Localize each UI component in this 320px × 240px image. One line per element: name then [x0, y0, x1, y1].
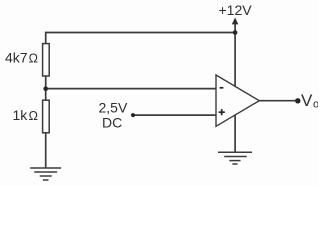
svg-text:2,5V: 2,5V: [99, 99, 128, 115]
svg-text:Ω: Ω: [29, 52, 38, 66]
node junction dot divider midpoint: [43, 86, 48, 91]
op-amp non-inverting input plus sign: [219, 109, 225, 115]
svg-text:4k7: 4k7: [5, 50, 28, 66]
wire inverting input: [46, 88, 216, 90]
svg-text:o: o: [313, 99, 318, 111]
op-amp U1: [216, 75, 259, 126]
output node dot: [295, 98, 300, 103]
svg-text:DC: DC: [102, 115, 122, 131]
power +12V arrow: [232, 18, 239, 25]
wire output: [259, 100, 297, 102]
wire op-amp negative supply to ground: [234, 115, 236, 153]
ground right: [218, 152, 252, 164]
node junction dot on +12V rail: [233, 30, 238, 35]
node terminal dot 2,5V source: [131, 113, 135, 117]
ground left: [30, 168, 61, 180]
svg-text:V: V: [301, 91, 313, 110]
wire top rail horizontal: [46, 33, 235, 44]
svg-text:1k: 1k: [13, 107, 29, 123]
wire non-inverting input: [133, 114, 216, 116]
resistor R1 4k7: [43, 44, 50, 76]
wire 1k to ground: [45, 133, 47, 168]
wire resistor divider middle segment: [45, 76, 47, 100]
svg-text:Ω: Ω: [29, 109, 38, 123]
wire +12V vertical to op-amp top: [234, 21, 236, 86]
op-amp inverting input minus sign: [220, 87, 224, 89]
resistor R2 1k: [43, 100, 50, 133]
svg-text:+12V: +12V: [219, 2, 253, 18]
